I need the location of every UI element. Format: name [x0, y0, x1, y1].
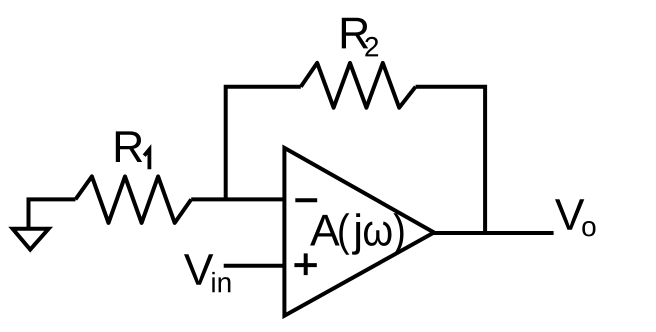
wire inverting node to R2 (feedback left vertical and top) — [226, 87, 301, 200]
wire ground to R1 — [27, 197, 76, 201]
wire R2 to output node (feedback top right and vertical) — [416, 87, 486, 233]
pin inverting input minus sign — [295, 198, 317, 202]
op-amp U1 — [284, 148, 434, 316]
pin non-inverting input plus sign — [294, 253, 316, 275]
wire Vin to non-inverting input — [224, 264, 285, 268]
resistor R2 — [301, 63, 416, 108]
label Vo — [555, 199, 596, 236]
label R2 — [342, 18, 378, 57]
resistor R1 — [76, 176, 192, 223]
label R1 — [116, 131, 150, 169]
wire R1 to op-amp inverting input — [191, 197, 284, 201]
label A(jω) gain — [310, 213, 403, 254]
label Vin — [184, 254, 230, 292]
ground — [13, 199, 49, 249]
wire output — [431, 231, 554, 235]
